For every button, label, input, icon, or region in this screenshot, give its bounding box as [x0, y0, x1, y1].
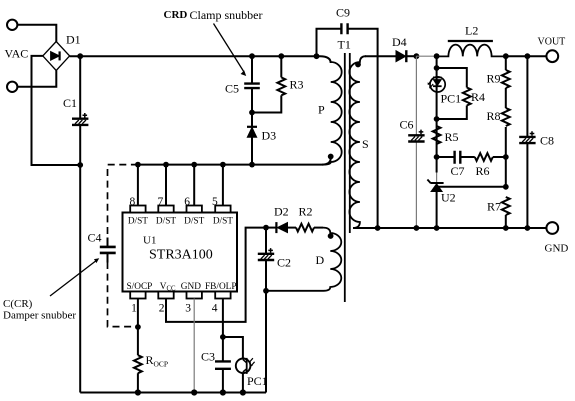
svg-text:S/OCP: S/OCP — [127, 282, 153, 292]
terminal VAC bottom — [7, 82, 17, 92]
wire C5 bottom — [251, 88, 253, 112]
svg-text:D: D — [316, 253, 325, 267]
svg-text:R2: R2 — [299, 205, 313, 219]
pin 5 stub — [215, 206, 230, 213]
svg-text:CRD: CRD — [164, 9, 188, 21]
wire secondary top to D4 — [365, 55, 396, 57]
svg-text:5: 5 — [212, 196, 218, 208]
svg-text:3: 3 — [185, 303, 191, 315]
wire phototransistor to rail — [242, 373, 244, 392]
svg-text:C3: C3 — [201, 350, 215, 364]
capacitor C3 — [215, 361, 231, 368]
svg-text:U1: U1 — [143, 235, 156, 247]
node R5 bottom — [434, 154, 440, 160]
wire R9 R8 chain — [505, 56, 507, 228]
capacitor C9 — [341, 23, 347, 34]
capacitor C2 — [258, 248, 274, 260]
capacitor C8 — [519, 131, 535, 143]
shunt regulator U2 — [427, 157, 443, 228]
pin 4 stub — [215, 292, 230, 299]
wire pin 2 Vcc trace — [166, 228, 266, 322]
wire U2 to divider node — [438, 186, 506, 188]
svg-text:PC1: PC1 — [441, 92, 462, 106]
node PC1 LED top — [434, 65, 440, 71]
optocoupler LED PC1 — [428, 77, 446, 92]
annotation arrow damper snubber — [50, 258, 99, 296]
wire pin 5 to bus — [222, 165, 224, 206]
diode D2 — [276, 222, 296, 233]
node R7 rail — [503, 225, 509, 231]
capacitor C4 — [100, 247, 116, 253]
node D3 bus — [249, 162, 255, 168]
terminal VAC top — [7, 20, 17, 30]
svg-text:7: 7 — [158, 196, 164, 208]
wire pin 6 to bus — [193, 165, 195, 206]
svg-text:D1: D1 — [66, 33, 81, 47]
svg-text:R3: R3 — [290, 78, 304, 92]
svg-text:C8: C8 — [540, 134, 554, 148]
svg-text:U2: U2 — [441, 191, 456, 205]
svg-text:S: S — [362, 137, 369, 151]
inductor L2 — [437, 41, 506, 56]
wire secondary ground rail — [353, 227, 546, 229]
svg-text:VOUT: VOUT — [538, 37, 566, 48]
node bridge output — [77, 53, 83, 59]
wire bottom terminal to bridge — [17, 71, 56, 87]
wire C3 to rail — [222, 369, 224, 393]
svg-text:FB/OLP: FB/OLP — [205, 282, 237, 292]
svg-text:T1: T1 — [338, 38, 351, 52]
svg-text:P: P — [318, 103, 325, 117]
wire primary ground rail bottom — [80, 392, 266, 394]
wire C2 lower — [265, 260, 267, 393]
diode D3 — [247, 113, 257, 165]
node C2 bottom D winding — [263, 288, 269, 294]
wire C1 branch upper — [79, 56, 81, 118]
node D4 cathode — [414, 53, 420, 59]
svg-text:6: 6 — [184, 196, 190, 208]
wire bridge left to lower-left corner — [32, 56, 81, 165]
node auxiliary phase dot — [328, 233, 334, 239]
wire C9 right — [348, 29, 378, 228]
wire C4 lower stub — [107, 253, 109, 262]
transformer T1 secondary winding S — [349, 56, 366, 228]
diode D4 — [396, 50, 416, 62]
node C9 secondary rail — [375, 225, 381, 231]
bridge rectifier D1 — [43, 42, 70, 71]
wire main top rail — [70, 56, 331, 63]
node C5 top — [249, 53, 255, 59]
wire pin 1 down — [137, 299, 139, 356]
pin 8 stub — [130, 206, 145, 213]
node ROCP rail — [135, 389, 141, 395]
node D2 C2 junction — [263, 225, 269, 231]
svg-text:D/ST: D/ST — [213, 216, 233, 226]
node secondary phase dot — [355, 62, 361, 68]
pin 6 stub — [187, 206, 202, 213]
svg-text:C7: C7 — [451, 164, 465, 178]
wire pin 3 GND trace — [193, 299, 195, 393]
op-amp U1 IC body STR3A100 — [123, 213, 238, 292]
node pin5 bus — [220, 162, 226, 168]
dashed damper snubber box — [108, 165, 138, 327]
svg-text:Clamp snubber: Clamp snubber — [190, 8, 263, 22]
svg-text:R5: R5 — [445, 130, 459, 144]
svg-text:PC1: PC1 — [247, 374, 268, 388]
wire C8 branch — [526, 56, 528, 228]
svg-text:Damper snubber: Damper snubber — [3, 310, 76, 322]
node C8 rail — [525, 225, 531, 231]
svg-text:C4: C4 — [88, 231, 102, 245]
wire top terminal to bridge — [17, 25, 56, 42]
node primary phase dot — [328, 154, 334, 160]
svg-text:2: 2 — [159, 303, 165, 315]
node R3 top — [278, 53, 284, 59]
resistor R9 — [502, 70, 510, 88]
transformer T1 primary winding P — [331, 62, 342, 162]
svg-text:C2: C2 — [277, 256, 291, 270]
wire pin 4 FB down — [222, 299, 224, 362]
capacitor C6 — [408, 130, 424, 142]
node C3 rail — [220, 389, 226, 395]
wire primary bottom exit — [322, 162, 331, 165]
wire R4 branch — [437, 68, 467, 119]
terminal VOUT — [546, 50, 558, 62]
capacitor C1 — [72, 113, 88, 125]
svg-text:D2: D2 — [274, 205, 289, 219]
svg-text:R8: R8 — [486, 109, 500, 123]
node C8 top — [525, 53, 531, 59]
pin 3 stub — [187, 292, 202, 299]
node U2 rail — [434, 225, 440, 231]
wire ROCP to rail — [137, 373, 139, 392]
svg-text:C(CR): C(CR) — [3, 298, 33, 310]
svg-text:GND: GND — [545, 243, 569, 255]
resistor R7 — [502, 197, 510, 215]
terminal GND — [546, 222, 558, 234]
wire R3 top — [280, 56, 282, 77]
optocoupler phototransistor PC1 — [236, 358, 255, 374]
svg-text:L2: L2 — [465, 24, 478, 38]
resistor ROCP — [134, 355, 142, 373]
node main top C9 junction — [314, 53, 320, 59]
transformer T1 core — [345, 53, 350, 302]
svg-text:R7: R7 — [487, 200, 501, 214]
svg-text:STR3A100: STR3A100 — [149, 248, 213, 263]
svg-text:R6: R6 — [476, 164, 490, 178]
wire C9 left — [317, 29, 342, 56]
svg-text:D/ST: D/ST — [184, 216, 204, 226]
wire C6 branch — [415, 56, 417, 228]
capacitor C7 — [455, 151, 461, 164]
node pin3 rail — [191, 389, 197, 395]
node pin6 bus — [191, 162, 197, 168]
node PC1 rail — [240, 389, 246, 395]
svg-text:1: 1 — [131, 303, 137, 315]
pin 1 stub — [130, 292, 145, 299]
wire R2 to D winding — [314, 227, 323, 229]
resistor R5 — [433, 126, 441, 144]
wire LED branch upper — [436, 56, 438, 77]
transformer T1 auxiliary winding D — [266, 228, 341, 291]
wire FB to phototransistor — [223, 337, 243, 359]
svg-text:C1: C1 — [63, 96, 77, 110]
wire pin 8 to bus — [137, 165, 139, 206]
node C5-R3 junction — [249, 110, 255, 116]
wire C7 branch — [437, 156, 475, 158]
svg-text:R4: R4 — [471, 90, 485, 104]
capacitor C2 wire upper — [265, 228, 267, 254]
pin 7 stub — [158, 206, 173, 213]
wire D4 node to L2 node — [416, 55, 436, 57]
svg-text:R9: R9 — [486, 72, 500, 86]
wire C1 branch lower — [79, 125, 81, 393]
node U2 divider — [503, 184, 509, 190]
node C1 bottom junction — [77, 162, 83, 168]
wire L2 to VOUT — [506, 55, 547, 57]
wire C4 upper stub — [107, 238, 109, 247]
capacitor C5 — [244, 84, 260, 89]
svg-text:D4: D4 — [392, 35, 407, 49]
node LED bottom R4 — [434, 116, 440, 122]
svg-text:D/ST: D/ST — [128, 216, 148, 226]
wire LED to R5 node — [436, 92, 438, 157]
node divider C7R6 — [503, 154, 509, 160]
resistor R4 — [463, 88, 471, 106]
wire C2 node to D2 — [266, 227, 276, 229]
node FB junction — [220, 334, 226, 340]
resistor R2 — [296, 224, 314, 232]
node pin7 bus — [163, 162, 169, 168]
svg-text:D3: D3 — [262, 129, 277, 143]
node C6 rail — [414, 225, 420, 231]
svg-text:VAC: VAC — [5, 47, 29, 61]
svg-text:C9: C9 — [336, 6, 350, 20]
svg-text:GND: GND — [181, 282, 201, 292]
wire pin 7 to bus — [165, 165, 167, 206]
pin 2 stub — [158, 292, 173, 299]
node R9 top — [503, 53, 509, 59]
snubber capacitor C5 wire — [251, 56, 253, 83]
resistor R3 — [277, 77, 285, 95]
node L2 input — [434, 53, 440, 59]
wire R3 bottom — [252, 95, 281, 112]
svg-text:8: 8 — [129, 196, 135, 208]
annotation arrow CRD clamp snubber — [214, 24, 247, 77]
resistor R8 — [502, 108, 510, 126]
node dashed pin1 junction — [135, 324, 141, 330]
wire D/ST bus — [138, 158, 331, 165]
node pin8 bus — [135, 162, 141, 168]
svg-text:4: 4 — [212, 303, 218, 315]
resistor R6 — [475, 153, 493, 161]
wire R6 to divider — [493, 156, 506, 158]
svg-text:C5: C5 — [225, 82, 239, 96]
svg-text:D/ST: D/ST — [156, 216, 176, 226]
svg-text:C6: C6 — [400, 118, 414, 132]
